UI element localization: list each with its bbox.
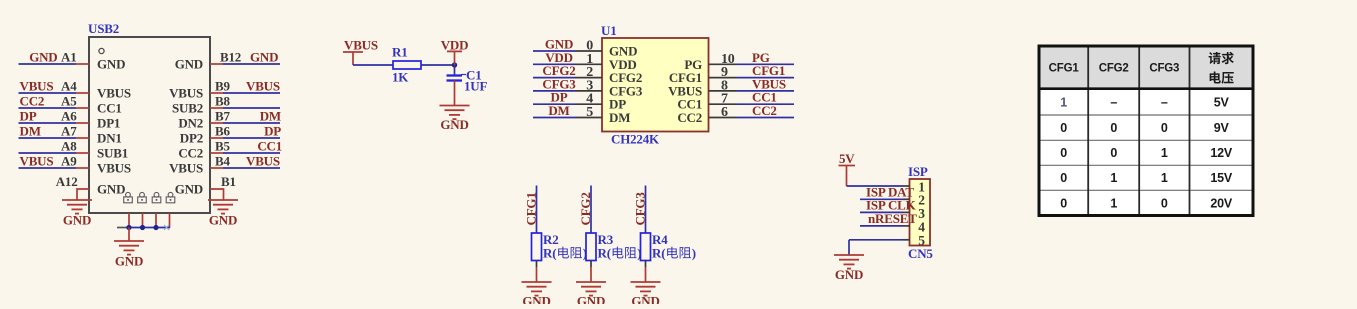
power port VDD: [441, 37, 469, 65]
svg-text:DP2: DP2: [180, 131, 203, 146]
wire R4 to ground: [645, 261, 647, 283]
svg-text:GND: GND: [440, 117, 468, 132]
svg-text:): ): [692, 246, 696, 261]
svg-text:B4: B4: [215, 154, 230, 169]
wire U1 pin 6 to net CC2: [737, 117, 794, 119]
ground at CN5 pin 5: [834, 255, 864, 282]
pin A6 of USB2: [61, 109, 89, 124]
ground at pin B1: [208, 200, 238, 228]
IC U1 body: [602, 38, 709, 132]
pin A5 of USB2: [61, 94, 89, 109]
svg-text:GND: GND: [835, 267, 863, 282]
label CN5: [908, 246, 933, 261]
pin name SUB1: [97, 146, 128, 161]
svg-text:1: 1: [1110, 171, 1117, 185]
shield pin S3 of USB2: [155, 213, 157, 228]
pin A4 of USB2: [61, 79, 89, 94]
svg-text:VBUS: VBUS: [97, 86, 131, 101]
value CH224K: [611, 132, 660, 147]
svg-text:DM: DM: [20, 124, 41, 139]
wire U1 pin 10 to net PG: [737, 63, 794, 65]
svg-text:1K: 1K: [392, 70, 409, 85]
svg-text:R1: R1: [392, 45, 408, 60]
svg-text:6: 6: [721, 105, 728, 120]
pin name CC1: [97, 101, 122, 116]
net label DP: [20, 109, 37, 124]
shield pad symbol S2 inside USB2: [138, 192, 147, 202]
svg-text:nRESET: nRESET: [868, 211, 917, 226]
pin name DP: [609, 97, 626, 112]
svg-text:B9: B9: [215, 79, 230, 94]
svg-text:CC2: CC2: [752, 103, 777, 118]
pin name GND: [609, 44, 637, 59]
pin name DM: [609, 110, 630, 125]
shield pad symbol S1 inside USB2: [124, 192, 133, 202]
pin name CFG2: [609, 70, 642, 85]
svg-text:CC2: CC2: [178, 146, 203, 161]
pin name VBUS: [169, 86, 203, 101]
wire net (unnamed) to pin A8: [19, 152, 77, 154]
net label VBUS: [20, 79, 54, 94]
wire net nRESET to CN5 pin 4: [860, 225, 903, 227]
svg-text:B6: B6: [215, 124, 230, 139]
svg-text:A9: A9: [61, 154, 77, 169]
table: CFG voltage request: [1039, 46, 1253, 216]
wire 5V to CN5 pin 1: [847, 185, 904, 187]
wire net CC1 from pin B5: [223, 152, 280, 154]
svg-text:VBUS: VBUS: [169, 86, 203, 101]
pin B5 of USB2: [210, 139, 230, 154]
ground below R3: [576, 282, 606, 309]
net label GND: [29, 50, 57, 65]
net label CC2: [20, 94, 45, 109]
svg-text:CFG3: CFG3: [1149, 63, 1179, 75]
value R(电阻): [652, 246, 696, 261]
pin 1 of U1: [575, 52, 602, 67]
svg-text:VBUS: VBUS: [97, 161, 131, 176]
svg-text:CC1: CC1: [97, 101, 122, 116]
net label nRESET: [868, 211, 917, 226]
net label CC2: [752, 103, 777, 118]
svg-text:–: –: [1110, 95, 1117, 109]
IC U1 designator: [601, 23, 617, 38]
wire net ISP DAT to CN5 pin 2: [860, 198, 903, 200]
wire net DM from pin B7: [223, 122, 280, 124]
pin name GND (B1): [175, 182, 203, 197]
svg-text:U1: U1: [601, 23, 617, 38]
svg-text:VBUS: VBUS: [169, 161, 203, 176]
pin 2 of U1: [575, 65, 602, 80]
net label VDD: [545, 50, 573, 65]
svg-text:SUB1: SUB1: [97, 146, 128, 161]
pin 5 of CN5: [903, 233, 925, 248]
wire U1 pin 8 to net VBUS: [737, 90, 794, 92]
svg-text:20V: 20V: [1210, 196, 1233, 210]
pin A12 of USB2: [56, 174, 89, 200]
svg-text:5: 5: [918, 233, 925, 248]
wire R3 to ground: [590, 261, 592, 283]
svg-text:B7: B7: [215, 109, 230, 124]
wire R2 to ground: [536, 261, 538, 283]
junction: [140, 225, 145, 230]
net label GND: [545, 37, 573, 52]
net label VBUS: [246, 79, 280, 94]
net label CFG3 (rotated): [633, 192, 648, 226]
pin A8 of USB2: [61, 139, 89, 154]
wire net GND to U1 pin 0: [533, 50, 575, 52]
svg-text:CN5: CN5: [908, 246, 933, 261]
no-ERC marker: [164, 225, 169, 230]
svg-text:CFG1: CFG1: [1049, 63, 1080, 75]
net label CFG1: [752, 63, 785, 78]
wire net VBUS to pin A4: [19, 92, 77, 94]
junction: [126, 225, 131, 230]
pin name GND: [97, 57, 125, 72]
svg-text:A8: A8: [61, 139, 77, 154]
svg-text:5V: 5V: [1214, 95, 1230, 109]
svg-text:0: 0: [1110, 121, 1117, 135]
svg-text:–: –: [1161, 95, 1168, 109]
power port 5V: [839, 151, 856, 186]
svg-text:B1: B1: [221, 174, 236, 189]
net label DM: [548, 103, 569, 118]
wire net DP to pin A6: [19, 122, 77, 124]
svg-text:A12: A12: [56, 174, 78, 189]
resistor R1: [393, 61, 421, 69]
svg-text:GND: GND: [29, 50, 57, 65]
shield pin S2 of USB2: [142, 213, 144, 228]
svg-text:1: 1: [1060, 95, 1067, 109]
svg-text:CH224K: CH224K: [611, 132, 660, 147]
pin 7 of U1: [709, 92, 738, 107]
svg-text:CFG2: CFG2: [1099, 63, 1129, 75]
power port VBUS: [343, 38, 378, 66]
net label PG: [752, 50, 770, 65]
label C1: [461, 68, 482, 83]
pin name PG: [684, 57, 702, 72]
svg-text:VBUS: VBUS: [20, 79, 54, 94]
svg-text:GND: GND: [209, 213, 237, 228]
net label DM: [260, 109, 281, 124]
svg-text:GND: GND: [97, 182, 125, 197]
pin 3 of CN5: [903, 206, 925, 221]
net label CC1: [257, 139, 282, 154]
net label DP: [264, 124, 281, 139]
wire net ISP CLK to CN5 pin 3: [860, 211, 903, 213]
pin name VBUS: [97, 86, 131, 101]
svg-text:DP1: DP1: [97, 116, 120, 131]
svg-text:B12: B12: [220, 50, 241, 65]
svg-text:A6: A6: [61, 109, 77, 124]
svg-text:R(: R(: [543, 246, 556, 261]
svg-text:1UF: 1UF: [464, 79, 487, 94]
pin B9 of USB2: [210, 79, 230, 94]
shield pin S4 of USB2: [169, 213, 171, 228]
svg-text:A7: A7: [61, 124, 77, 139]
svg-text:1: 1: [1161, 146, 1168, 160]
wire net VBUS from pin B4: [223, 167, 280, 169]
svg-text:VBUS: VBUS: [20, 154, 54, 169]
svg-text:12V: 12V: [1210, 146, 1233, 160]
pin name CFG1: [669, 70, 702, 85]
svg-text:0: 0: [1161, 196, 1168, 210]
svg-text:9V: 9V: [1214, 121, 1230, 135]
shield pad symbol S4 inside USB2: [166, 192, 175, 202]
svg-text:DN2: DN2: [178, 116, 203, 131]
net label CFG2 (rotated): [578, 192, 593, 225]
pin 2 of CN5: [903, 193, 925, 208]
svg-text:DP: DP: [20, 109, 37, 124]
pin name CC2: [178, 146, 203, 161]
svg-text:VDD: VDD: [441, 37, 469, 52]
shield pad symbol S3 inside USB2: [152, 192, 161, 202]
svg-text:1: 1: [1110, 196, 1117, 210]
wire net CC2 to pin A5: [19, 107, 77, 109]
pin 4 of CN5: [903, 219, 925, 234]
junction: [153, 225, 158, 230]
svg-text:A4: A4: [61, 79, 77, 94]
pin name CC2: [677, 110, 702, 125]
resistor R4: [641, 233, 651, 261]
pin 5 of U1: [575, 105, 602, 120]
net label CC1: [752, 90, 777, 105]
wire shield to ground: [128, 228, 130, 242]
net label GND: [250, 50, 278, 65]
svg-text:GND: GND: [175, 57, 203, 72]
wire VBUS to R1: [353, 64, 393, 66]
pin B4 of USB2: [210, 154, 230, 169]
svg-text:GND: GND: [115, 254, 143, 269]
wire U1 pin 9 to net CFG1: [737, 77, 794, 79]
value R(电阻): [598, 246, 642, 261]
pin name VBUS: [169, 161, 203, 176]
wire U1 pin 7 to net CC1: [737, 103, 794, 105]
svg-text:DP: DP: [264, 124, 281, 139]
svg-text:4: 4: [918, 219, 925, 234]
svg-text:GND: GND: [250, 50, 278, 65]
svg-text:15V: 15V: [1210, 171, 1233, 185]
wire net VBUS to pin A9: [19, 167, 77, 169]
wire net GND to pin A1: [19, 63, 77, 65]
net label CFG1 (rotated): [524, 192, 539, 225]
svg-text:0: 0: [1060, 196, 1067, 210]
pin A7 of USB2: [61, 124, 89, 139]
svg-text:VBUS: VBUS: [246, 154, 280, 169]
svg-text:GND: GND: [97, 57, 125, 72]
ground below C1: [440, 106, 470, 133]
pin name GND (A12): [97, 182, 125, 197]
wire net CFG1 to R2: [536, 186, 538, 234]
net label ISP CLK: [866, 197, 917, 212]
net label VBUS: [246, 154, 280, 169]
value 1K: [392, 70, 409, 85]
pin name GND: [175, 57, 203, 72]
svg-text:A1: A1: [61, 50, 77, 65]
svg-text:DM: DM: [260, 109, 281, 124]
svg-text:USB2: USB2: [88, 21, 119, 36]
wire net VDD to U1 pin 1: [533, 63, 575, 65]
label R1: [392, 45, 408, 60]
wire net DP from pin B6: [223, 137, 280, 139]
resistor R2: [532, 233, 542, 261]
resistor R3: [586, 233, 596, 261]
pin 0 of U1: [575, 39, 602, 54]
svg-text:B5: B5: [215, 139, 230, 154]
pin B7 of USB2: [210, 109, 230, 124]
wire CN5 pin 5 to ground: [849, 240, 903, 255]
svg-text:0: 0: [1060, 121, 1067, 135]
pin name DN2: [178, 116, 203, 131]
wire net GND from pin B12: [223, 63, 280, 65]
pin B1 of USB2: [210, 174, 236, 200]
net label VBUS: [20, 154, 54, 169]
wire net VBUS from pin B9: [223, 92, 280, 94]
connector CN5 designator ISP: [908, 164, 928, 179]
wire net DM to pin A7: [19, 137, 77, 139]
svg-text:0: 0: [1161, 121, 1168, 135]
ground below R4: [631, 282, 661, 309]
svg-text:0: 0: [1060, 171, 1067, 185]
svg-text:GND: GND: [631, 294, 659, 305]
wire net CFG3 to R4: [645, 186, 647, 234]
pin 1 of CN5: [903, 179, 925, 194]
pin 4 of U1: [575, 92, 602, 107]
label R3: [598, 232, 614, 247]
net label DM: [20, 124, 41, 139]
svg-text:CC1: CC1: [257, 139, 282, 154]
pin 3 of U1: [575, 78, 602, 93]
svg-text:R(: R(: [652, 246, 665, 261]
pin name DP1: [97, 116, 120, 131]
pin 9 of U1: [709, 65, 738, 80]
pin B6 of USB2: [210, 124, 230, 139]
ground for shield: [114, 241, 144, 269]
net label CFG2: [542, 63, 575, 78]
shield pin S1 of USB2: [128, 213, 130, 228]
svg-text:DN1: DN1: [97, 131, 122, 146]
label R4: [652, 232, 668, 247]
wire net DM to U1 pin 5: [533, 117, 575, 119]
net label CFG3: [542, 76, 576, 91]
pin name DN1: [97, 131, 122, 146]
net label DP: [551, 90, 568, 105]
pin name VBUS: [668, 83, 702, 98]
svg-text:1: 1: [1161, 171, 1168, 185]
wire net (unnamed) from pin B8: [223, 107, 280, 109]
wire net CFG2 to U1 pin 2: [533, 77, 575, 79]
svg-text:0: 0: [1110, 146, 1117, 160]
pin name SUB2: [172, 101, 203, 116]
ground at pin A12: [62, 200, 92, 228]
wire R1 to VDD node: [421, 64, 455, 66]
capacitor C1: [447, 65, 463, 106]
svg-text:5V: 5V: [839, 151, 855, 166]
svg-text:DM: DM: [609, 110, 630, 125]
wire joining shield pins: [117, 227, 170, 229]
svg-text:VBUS: VBUS: [344, 38, 378, 53]
wire net CFG3 to U1 pin 3: [533, 90, 575, 92]
svg-text:R(: R(: [598, 246, 611, 261]
svg-text:CC2: CC2: [20, 94, 45, 109]
pin name DP2: [180, 131, 203, 146]
connector CN5 body: [910, 179, 931, 246]
net label VBUS: [752, 76, 786, 91]
pin 6 of U1: [709, 105, 738, 120]
svg-text:0: 0: [1060, 146, 1067, 160]
svg-text:VBUS: VBUS: [246, 79, 280, 94]
svg-text:GND: GND: [577, 294, 605, 305]
junction at VDD node: [452, 62, 457, 67]
value R(电阻): [543, 246, 587, 261]
pin A1 of USB2: [61, 50, 89, 65]
svg-text:ISP: ISP: [908, 164, 928, 179]
value 1UF: [464, 79, 487, 94]
svg-text:SUB2: SUB2: [172, 101, 203, 116]
svg-text:GND: GND: [63, 213, 91, 228]
svg-text:CC2: CC2: [677, 110, 702, 125]
svg-text:GND: GND: [175, 182, 203, 197]
net label ISP DAT: [866, 184, 914, 199]
svg-text:GND: GND: [522, 294, 550, 305]
wire net DP to U1 pin 4: [533, 103, 575, 105]
pin B8 of USB2: [210, 94, 230, 109]
pin 8 of U1: [709, 78, 738, 93]
label R2: [543, 232, 559, 247]
svg-text:A5: A5: [61, 94, 77, 109]
pin name CFG3: [609, 83, 643, 98]
pin name VDD: [609, 57, 637, 72]
pin B12 of USB2: [210, 50, 241, 65]
pin name VBUS: [97, 161, 131, 176]
svg-text:5: 5: [586, 105, 593, 120]
pin A9 of USB2: [61, 154, 89, 169]
svg-text:DM: DM: [548, 103, 569, 118]
svg-text:B8: B8: [215, 94, 230, 109]
ground below R2: [522, 282, 552, 309]
connector USB2 designator: [88, 21, 119, 36]
pin 10 of U1: [709, 52, 738, 67]
wire net CFG2 to R3: [590, 186, 592, 234]
pin name CC1: [677, 97, 702, 112]
connector USB2 body: [89, 37, 210, 213]
